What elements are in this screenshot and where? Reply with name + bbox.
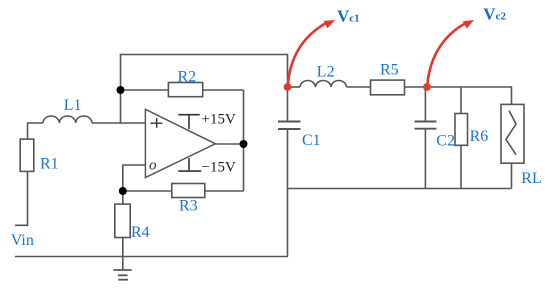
svg-text:L1: L1 [64,97,82,114]
resistor R1 [20,139,34,171]
svg-text:Vc2: Vc2 [483,5,506,24]
arrow Vc2 [428,16,476,84]
wire bottom rail [15,256,288,258]
svg-text:R6: R6 [470,128,489,145]
arrow Vc1 [288,16,337,84]
svg-text:R4: R4 [131,224,150,241]
power +15V [178,112,236,130]
svg-text:−15V: −15V [202,160,236,176]
svg-text:+15V: +15V [202,112,236,128]
node Vc2 [423,83,431,91]
wire C2 top [424,87,426,122]
wire C1 bottom to rail [287,129,289,257]
power -15V [178,158,236,175]
wire R6 bottom [460,145,462,188]
inductor L2 [300,81,347,87]
resistor R3 [172,184,205,198]
op-amp U1 [145,109,215,177]
wire L1 to op-amp [92,122,145,124]
resistor R6 [455,114,468,146]
svg-text:Vc1: Vc1 [337,7,360,26]
node junction at R2 left [117,86,125,94]
wire L2 to R5 [347,86,371,88]
wire lower rail [288,188,512,190]
wire node Vc2 to RL top [427,87,512,104]
svg-text:R2: R2 [178,69,197,86]
inductor L1 [43,116,92,123]
wire node Vc1 to L2 [288,86,301,88]
wire R2 left [121,89,169,91]
svg-text:R5: R5 [380,62,399,79]
wire R6 top [460,87,462,114]
svg-text:o: o [149,158,157,174]
svg-text:RL: RL [521,170,541,187]
node junction at op-amp output [240,140,248,148]
wire op-amp output [215,143,243,145]
svg-text:L2: L2 [317,63,335,80]
node Vc1 [284,83,292,91]
wire R5 to node Vc2 [405,86,428,88]
wire C1 top [287,87,289,122]
svg-text:Vin: Vin [11,232,34,249]
wire R1 to Vin terminal [15,171,28,225]
wire R3 left [123,190,172,192]
svg-text:R1: R1 [40,155,59,172]
wire R3 right [205,190,244,192]
resistor RL [501,104,524,163]
wire C2 bottom [424,129,426,189]
wire R4 to ground [122,238,124,270]
wire RL bottom [511,163,513,188]
svg-text:C2: C2 [436,132,455,149]
svg-text:C1: C1 [302,132,321,149]
resistor R4 [115,204,130,237]
wire inverting input [123,165,146,191]
capacitor C2 [415,122,437,129]
capacitor C1 [278,122,301,130]
wire R4 top [122,191,124,204]
node junction at inverting input [119,187,127,195]
wire top feedback [121,55,288,124]
resistor R5 [371,80,405,95]
wire R2 right [203,89,244,91]
ground [113,270,131,280]
resistor R2 [168,83,202,97]
wire feedback vertical [243,90,245,191]
svg-text:R3: R3 [179,198,198,215]
wire input to L1 [28,123,44,139]
